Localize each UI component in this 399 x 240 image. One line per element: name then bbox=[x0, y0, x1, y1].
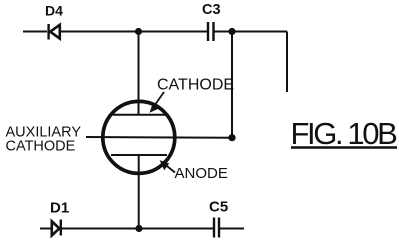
wire bottom-left segment bbox=[40, 228, 52, 230]
diode D4 bbox=[49, 24, 60, 40]
wire right stub (vertical open end) bbox=[286, 32, 288, 93]
svg-text:D4: D4 bbox=[45, 3, 63, 19]
wire vertical from top node into tube cathode bbox=[138, 32, 140, 115]
wire bottom-right segment bbox=[219, 228, 244, 230]
tube cathode plate bbox=[113, 114, 167, 116]
svg-text:C5: C5 bbox=[209, 199, 228, 216]
svg-text:C3: C3 bbox=[202, 2, 221, 18]
tube envelope V1 bbox=[103, 101, 175, 173]
label AUXILIARY CATHODE bbox=[6, 125, 82, 155]
svg-text:CATHODE: CATHODE bbox=[6, 139, 76, 155]
node junction dot (bottom of tube) bbox=[135, 225, 142, 232]
svg-text:ANODE: ANODE bbox=[175, 165, 228, 182]
wire horizontal grid wire through tube bbox=[86, 136, 232, 139]
leader arrow to cathode bbox=[150, 92, 165, 113]
tube anode plate bbox=[111, 154, 167, 156]
wire vertical from anode plate to bottom wire bbox=[138, 155, 140, 229]
capacitor C5 bbox=[214, 218, 219, 238]
svg-text:D1: D1 bbox=[50, 200, 69, 217]
diode D1 bbox=[52, 220, 61, 236]
figure label FIG. 10B bbox=[291, 116, 398, 151]
svg-text:CATHODE: CATHODE bbox=[157, 77, 234, 94]
node junction dot (right of C3) bbox=[228, 28, 235, 35]
wire vertical from C3 node down to grid node bbox=[231, 32, 233, 139]
capacitor C3 bbox=[208, 22, 214, 41]
wire top-middle segment bbox=[60, 31, 208, 33]
wire top-left segment bbox=[23, 31, 47, 33]
leader arrow to anode bbox=[160, 160, 175, 172]
node junction dot (top of tube) bbox=[135, 28, 142, 35]
node junction dot (grid wire) bbox=[228, 134, 235, 141]
wire top-right segment bbox=[214, 31, 288, 33]
wire bottom-middle segment bbox=[61, 228, 214, 230]
svg-text:FIG. 10B: FIG. 10B bbox=[291, 116, 398, 151]
